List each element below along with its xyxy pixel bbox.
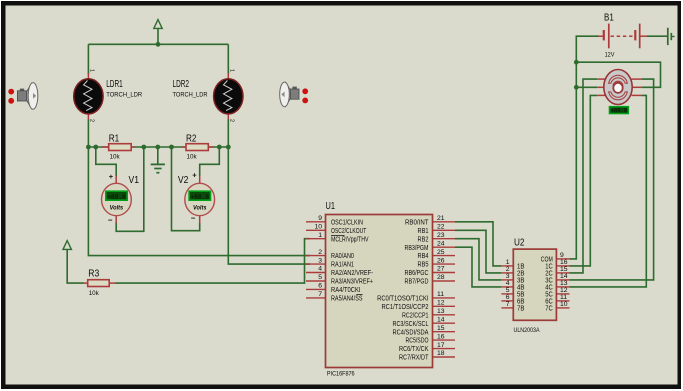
svg-text:2: 2 (228, 119, 234, 122)
svg-text:7: 7 (506, 301, 510, 308)
svg-text:+88.8: +88.8 (611, 107, 628, 114)
svg-text:RB5: RB5 (418, 262, 429, 269)
svg-text:V1: V1 (129, 175, 140, 186)
svg-text:4: 4 (318, 266, 322, 273)
svg-text:13: 13 (560, 280, 568, 287)
svg-text:1B: 1B (517, 263, 525, 270)
svg-text:12: 12 (437, 300, 445, 307)
svg-text:RB7/PGD: RB7/PGD (405, 279, 429, 286)
svg-text:RA4/T0CKI: RA4/T0CKI (331, 287, 361, 294)
svg-text:23: 23 (437, 232, 445, 239)
svg-text:2: 2 (318, 249, 322, 256)
svg-text:V2: V2 (178, 175, 189, 186)
svg-text:25: 25 (437, 249, 445, 256)
svg-text:4C: 4C (545, 284, 553, 291)
svg-text:MCLR/Vpp/THV: MCLR/Vpp/THV (331, 236, 369, 243)
svg-text:RC5/SDO: RC5/SDO (406, 338, 429, 345)
svg-text:14: 14 (437, 316, 445, 323)
svg-text:+: + (109, 172, 114, 181)
svg-text:28: 28 (437, 274, 445, 281)
svg-text:18: 18 (437, 350, 445, 357)
svg-text:11: 11 (437, 291, 444, 298)
svg-text:RB2: RB2 (418, 236, 429, 243)
svg-text:4B: 4B (517, 284, 525, 291)
svg-text:10: 10 (314, 224, 322, 231)
svg-text:26: 26 (437, 257, 445, 264)
svg-text:13: 13 (437, 308, 445, 315)
svg-text:RC4/SDI/SDA: RC4/SDI/SDA (393, 329, 429, 336)
svg-text:10k: 10k (110, 153, 121, 160)
svg-text:16: 16 (437, 333, 445, 340)
svg-text:1: 1 (89, 69, 95, 72)
svg-text:6C: 6C (545, 298, 553, 305)
svg-text:RA5/AN4/SS: RA5/AN4/SS (331, 296, 363, 303)
svg-text:12V: 12V (605, 51, 615, 58)
svg-text:LDR1: LDR1 (106, 79, 123, 90)
svg-text:TORCH_LDR: TORCH_LDR (173, 91, 208, 98)
svg-text:RA0/AN0: RA0/AN0 (331, 253, 354, 260)
svg-text:24: 24 (437, 240, 445, 247)
svg-text:1: 1 (506, 259, 510, 266)
svg-text:5C: 5C (545, 291, 553, 298)
svg-text:RC6/TX/CK: RC6/TX/CK (399, 346, 429, 353)
svg-text:15: 15 (560, 266, 568, 273)
svg-text:5B: 5B (517, 291, 525, 298)
svg-text:15: 15 (437, 325, 445, 332)
svg-text:2B: 2B (517, 270, 525, 277)
svg-text:21: 21 (437, 215, 445, 222)
svg-text:2C: 2C (545, 270, 553, 277)
svg-text:5: 5 (506, 287, 510, 294)
svg-text:OSC2/CLKOUT: OSC2/CLKOUT (331, 228, 367, 235)
svg-text:1: 1 (228, 69, 234, 72)
svg-text:27: 27 (437, 266, 445, 273)
svg-text:U1: U1 (326, 201, 336, 212)
svg-text:16: 16 (560, 259, 568, 266)
svg-text:COM: COM (541, 256, 553, 263)
svg-text:Volts: Volts (110, 205, 124, 212)
svg-text:RC2/CCP1: RC2/CCP1 (402, 312, 429, 319)
svg-text:10k: 10k (89, 290, 100, 297)
svg-text:7: 7 (318, 291, 322, 298)
svg-text:RA1/AN1: RA1/AN1 (331, 262, 354, 269)
svg-text:U2: U2 (514, 238, 525, 249)
svg-text:RC0/T1OSO/T1CKI: RC0/T1OSO/T1CKI (377, 296, 428, 303)
svg-text:–: – (108, 216, 113, 225)
svg-text:22: 22 (437, 224, 445, 231)
svg-text:11: 11 (560, 294, 567, 301)
svg-text:3B: 3B (517, 277, 525, 284)
svg-text:2: 2 (89, 119, 95, 122)
svg-text:RB6/PGC: RB6/PGC (405, 270, 429, 277)
svg-text:6B: 6B (517, 298, 525, 305)
svg-text:17: 17 (437, 342, 445, 349)
svg-text:12: 12 (560, 287, 568, 294)
svg-text:B1: B1 (604, 13, 614, 24)
svg-text:PIC16F876: PIC16F876 (327, 371, 355, 378)
svg-text:1: 1 (318, 232, 322, 239)
svg-text:7C: 7C (545, 305, 553, 312)
svg-text:3: 3 (506, 273, 510, 280)
svg-text:3: 3 (318, 257, 322, 264)
svg-text:9: 9 (318, 215, 322, 222)
svg-text:RC7/RX/DT: RC7/RX/DT (399, 355, 429, 362)
svg-text:R1: R1 (109, 134, 120, 145)
svg-text:TORCH_LDR: TORCH_LDR (106, 91, 142, 98)
svg-text:RC1/T1OSI/CCP2: RC1/T1OSI/CCP2 (382, 304, 429, 311)
svg-text:5: 5 (318, 274, 322, 281)
svg-text:ULN2003A: ULN2003A (514, 327, 540, 334)
svg-text:4: 4 (506, 280, 510, 287)
svg-text:Volts: Volts (193, 205, 207, 212)
svg-text:10: 10 (560, 301, 568, 308)
svg-text:OSC1/CLKIN: OSC1/CLKIN (331, 219, 363, 226)
svg-text:14: 14 (560, 273, 568, 280)
svg-text:9: 9 (560, 252, 564, 259)
svg-text:+: + (192, 171, 197, 180)
svg-text:RC3/SCK/SCL: RC3/SCK/SCL (393, 321, 429, 328)
svg-text:7B: 7B (517, 305, 525, 312)
svg-text:RA2/AN2/VREF-: RA2/AN2/VREF- (331, 270, 374, 277)
svg-text:LDR2: LDR2 (173, 79, 190, 90)
svg-text:3C: 3C (545, 277, 553, 284)
svg-text:1C: 1C (545, 263, 553, 270)
svg-text:RB1: RB1 (418, 228, 429, 235)
svg-text:10k: 10k (187, 153, 198, 160)
svg-text:–: – (191, 214, 196, 223)
svg-text:+88.8: +88.8 (107, 194, 126, 201)
svg-text:RB0/INT: RB0/INT (405, 219, 429, 226)
svg-text:RB4: RB4 (418, 253, 429, 260)
svg-text:R2: R2 (186, 134, 197, 145)
svg-text:2: 2 (506, 266, 510, 273)
svg-text:R3: R3 (88, 269, 99, 280)
svg-text:+88.8: +88.8 (191, 194, 210, 201)
svg-text:RB3/PGM: RB3/PGM (405, 245, 429, 252)
svg-text:6: 6 (506, 294, 510, 301)
svg-text:6: 6 (318, 283, 322, 290)
svg-text:RA3/AN3/VREF+: RA3/AN3/VREF+ (331, 279, 373, 286)
